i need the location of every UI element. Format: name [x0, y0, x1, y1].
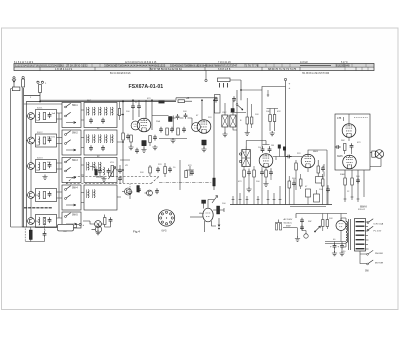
- AF tube V4: [301, 154, 315, 168]
- V3 ground: [246, 187, 251, 192]
- AC ground: [297, 228, 299, 238]
- speaker wires: [370, 153, 376, 155]
- osc long vertical: [236, 90, 238, 205]
- strip drop wire: [205, 71, 207, 80]
- L14: [106, 107, 107, 115]
- svg-text:818283848: 818283848: [336, 64, 350, 68]
- svg-text:MOTOR: MOTOR: [375, 263, 384, 265]
- SW1 arrow: [66, 122, 76, 124]
- svg-text:SW-1: SW-1: [72, 105, 78, 107]
- svg-text:PHONO: PHONO: [375, 253, 383, 255]
- SW4a contact: [65, 186, 71, 191]
- J2 lead: [83, 221, 95, 224]
- coil box 2: [84, 130, 117, 155]
- row1 can box: [36, 110, 57, 123]
- L11: [88, 107, 89, 115]
- strip lower cell dividers: [40, 67, 356, 70]
- svg-text:ANT: ANT: [87, 99, 92, 102]
- det tube V5: [203, 208, 213, 222]
- svg-text:F20-02: F20-02: [358, 209, 366, 211]
- V3 top caps: [261, 147, 265, 153]
- pin circles R1: [37, 81, 39, 83]
- filter cap leads: [335, 242, 343, 253]
- shielded lead (double line): [22, 88, 23, 228]
- interbank verticals: [59, 102, 123, 219]
- wire box to junction: [230, 80, 286, 90]
- osc trim gnd: [245, 131, 250, 136]
- svg-text:5 17 9: 5 17 9: [341, 62, 348, 64]
- output tube V7: [343, 155, 357, 169]
- post box1: [306, 189, 311, 197]
- line resistor a: [322, 220, 324, 227]
- mid cluster wires: [120, 160, 194, 190]
- drop wires from rail: [133, 100, 214, 190]
- svg-text:Fig.4: Fig.4: [133, 230, 140, 234]
- bar comp: [137, 186, 140, 193]
- V4 grid res: [295, 163, 298, 170]
- row2 coil L2: [39, 137, 40, 145]
- row3 resistor: [43, 163, 46, 170]
- base center dot: [166, 217, 167, 218]
- secondary taps: [366, 222, 369, 249]
- interstage res: [344, 144, 347, 151]
- svg-text:1 8 15 4 11 2 9: 1 8 15 4 11 2 9: [55, 67, 73, 71]
- svg-text:56K: 56K: [341, 140, 345, 142]
- V1 cathode ground: [143, 146, 145, 149]
- svg-text:SW-2: SW-2: [72, 133, 78, 135]
- col ticks: [344, 197, 360, 199]
- switch box 2: [62, 130, 81, 155]
- strip tick marks upper: [60, 64, 366, 68]
- T4 hatch: [242, 150, 251, 167]
- SW2b contact: [65, 140, 71, 145]
- L22: [94, 135, 95, 143]
- grid cap a: [176, 114, 180, 120]
- row3 stub wire: [26, 163, 62, 169]
- osc coil can B: [230, 115, 236, 127]
- row1 stub wire: [26, 113, 62, 119]
- V3 extra cap b: [283, 147, 286, 151]
- mid cap2: [168, 167, 172, 173]
- row3 det coil: [104, 167, 105, 175]
- row3 det resistor: [95, 170, 98, 176]
- svg-text:6 8 8 1 8 8: 6 8 8 1 8 8: [218, 67, 231, 71]
- post res3: [322, 179, 325, 186]
- V4 right comps res: [317, 166, 320, 173]
- L31: [88, 162, 89, 170]
- svg-text:B1 C4 D2 E8 F3 G6: B1 C4 D2 E8 F3 G6: [110, 73, 131, 75]
- bottom row res r1: [166, 128, 169, 135]
- row3 can box: [36, 160, 57, 173]
- filter cap 1: [333, 243, 337, 249]
- V5 pins down: [205, 221, 217, 232]
- row1 resistor: [43, 113, 46, 120]
- base pins: [165, 211, 167, 213]
- SW4 arrow: [66, 204, 76, 206]
- osc coil A hatch: [222, 115, 228, 127]
- pin circle right: [284, 78, 286, 80]
- osc link wire: [231, 112, 247, 114]
- svg-text:17B: 17B: [337, 117, 342, 120]
- transformer secondary box: [355, 219, 366, 252]
- band switch contact: [236, 104, 238, 106]
- under-box columns: [345, 170, 364, 202]
- row4 can box: [36, 189, 57, 202]
- row2 stub wire: [26, 138, 62, 144]
- V3 ground2: [263, 182, 268, 187]
- grid line: [152, 116, 192, 131]
- bottom row res r2: [177, 128, 180, 135]
- jack elbow: [74, 225, 80, 228]
- bias cap: [43, 231, 47, 237]
- fuse F1: [22, 79, 25, 87]
- row5 coil L5: [39, 217, 40, 225]
- V2 cathode cap: [202, 140, 206, 145]
- box3 core bars: [87, 162, 99, 171]
- post leads: [289, 174, 328, 205]
- svg-text:SW-3: SW-3: [72, 160, 78, 162]
- speaker coupling rect: [372, 151, 376, 157]
- AC cap 2: [300, 225, 304, 231]
- L12: [94, 107, 95, 115]
- svg-text:535455565758596061626364656667: 5354555657585960616263646566676869707172…: [170, 64, 238, 68]
- B dropping resistor Ra: [269, 115, 272, 122]
- svg-text:OSC: OSC: [222, 112, 227, 114]
- svg-text:524 3: 524 3: [37, 158, 43, 160]
- jack pin: [79, 223, 81, 225]
- V5 arrow down: [218, 218, 220, 227]
- SW4b contact: [65, 195, 71, 200]
- L13: [100, 107, 101, 115]
- transistor Q1: [125, 188, 132, 195]
- osc padder cap: [231, 109, 234, 112]
- mech dash-dot link: [159, 182, 212, 184]
- V2 small envelope: [192, 123, 201, 132]
- cap near Q1: [137, 187, 141, 193]
- L24: [106, 135, 107, 143]
- mid res2: [164, 167, 167, 174]
- osc trim resistor b: [251, 117, 253, 124]
- osc ground: [222, 132, 227, 137]
- row1 coil L1: [39, 112, 40, 120]
- V3 top wires: [246, 141, 269, 150]
- V5 wires right: [213, 208, 224, 212]
- V5 grid bars: [206, 213, 211, 217]
- svg-text:12 6 3 18 10 5 21 13 8 24 2 15: 12 6 3 18 10 5 21 13 8 24 2 15: [125, 62, 157, 64]
- svg-text:524 2: 524 2: [37, 132, 43, 134]
- J2 wires: [98, 215, 111, 232]
- osc coil can A: [222, 115, 228, 127]
- SW3 arrow: [66, 177, 76, 179]
- wire to B rail: [185, 100, 193, 102]
- svg-text:27 28 29 30 31 32: 27 28 29 30 31 32: [66, 64, 88, 68]
- volume pot resistor: [111, 166, 114, 177]
- SW1b contact: [65, 112, 71, 117]
- mid cluster cap3: [190, 170, 194, 176]
- grid stopper resistor: [169, 117, 173, 122]
- V5 top cap: [202, 200, 206, 203]
- row2 cap: [48, 137, 52, 143]
- speaker cross: [376, 151, 382, 157]
- switch box 4: [62, 185, 81, 210]
- phone jack: [95, 226, 101, 232]
- tap switch 1: [367, 219, 373, 224]
- box2 core bars: [87, 135, 111, 144]
- elbow pin foot: [267, 94, 269, 96]
- power top wire: [296, 214, 347, 219]
- switch box 1: [62, 103, 81, 128]
- Q2 legs: [145, 191, 152, 196]
- box1 core bars: [87, 107, 111, 116]
- V4 vertical right: [296, 150, 327, 205]
- L23: [100, 135, 101, 143]
- extra cap leads: [279, 149, 284, 157]
- svg-text:+: +: [41, 79, 43, 83]
- T4 top stub: [245, 147, 247, 150]
- svg-text:6AV6: 6AV6: [313, 150, 319, 153]
- row3 det cap: [98, 168, 102, 174]
- col cap: [356, 178, 360, 184]
- svg-text:75 76 77 78: 75 76 77 78: [244, 64, 259, 68]
- svg-text:+: +: [289, 86, 291, 90]
- svg-text:68 69 70 71 72 73 74 75: 68 69 70 71 72 73 74 75: [268, 67, 297, 71]
- osc trim resistor a: [246, 117, 248, 124]
- Q1 ground: [129, 196, 131, 200]
- J2 inner: [96, 223, 100, 226]
- V3 below comps r1: [243, 170, 246, 177]
- svg-text:VR: VR: [125, 165, 128, 167]
- wire antenna to R1: [24, 93, 40, 102]
- V8 bars: [339, 224, 343, 227]
- col res1: [344, 178, 347, 185]
- osc leads: [225, 101, 237, 133]
- cap near Q2: [155, 188, 159, 194]
- mid cluster res3: [185, 171, 188, 178]
- row3 det cap2: [107, 168, 111, 174]
- transistor Q2: [147, 190, 153, 196]
- svg-text:6AV6: 6AV6: [199, 212, 205, 215]
- ant coil box: [218, 78, 231, 82]
- L33: [100, 162, 101, 170]
- osc coil B hatch: [230, 115, 236, 127]
- row5 can box: [36, 215, 57, 228]
- svg-text:1M: 1M: [271, 145, 274, 147]
- bottom cap row c2: [170, 127, 174, 133]
- power switch dot: [314, 231, 316, 233]
- row3 ground: [42, 175, 47, 180]
- row2 resistor: [43, 137, 46, 144]
- power switch arrow: [316, 226, 321, 231]
- ganged switch dashed frame: [66, 177, 159, 184]
- V5 arrow dot: [218, 228, 220, 230]
- svg-text:AC 100V: AC 100V: [284, 218, 293, 221]
- V8 leads: [340, 214, 342, 242]
- mech ground: [127, 190, 132, 195]
- svg-text:+: +: [36, 79, 38, 83]
- row5 out jack J2: [95, 221, 102, 228]
- V5 top wires: [204, 200, 214, 209]
- plug bar: [275, 220, 297, 228]
- transformer primary winding: [346, 222, 348, 232]
- junctions on x123: [122, 114, 124, 116]
- resistor R3: [178, 100, 185, 103]
- interstage wires: [345, 137, 352, 154]
- post box2: [314, 194, 320, 202]
- switch dot: [241, 109, 243, 111]
- svg-text:PL 2.5V: PL 2.5V: [374, 231, 382, 233]
- mid cap: [156, 167, 160, 173]
- V4 coupling wire: [273, 157, 302, 161]
- primary leads: [341, 218, 346, 247]
- filter grounds: [332, 251, 337, 256]
- grid cap b: [184, 113, 188, 119]
- cap drop dashed: [44, 218, 46, 232]
- V3 extra cap a: [278, 145, 281, 149]
- svg-text:30A5: 30A5: [337, 155, 343, 158]
- grid rail wire: [40, 98, 218, 100]
- antenna symbol: [12, 79, 16, 87]
- under tube comps resistor: [130, 135, 133, 142]
- output jack box: [58, 224, 74, 231]
- fuse pin: [22, 76, 24, 78]
- row4 coil L4: [39, 191, 40, 199]
- V1 cathode cap: [142, 141, 146, 146]
- row5 stub wire: [26, 218, 62, 221]
- J2 ground: [95, 230, 100, 235]
- svg-text:111213141516171819202122232425: 111213141516171819202122232425262: [15, 64, 64, 68]
- row4 resistor: [43, 192, 46, 199]
- svg-text:10K: 10K: [266, 111, 270, 113]
- Q1 legs: [122, 189, 130, 194]
- V1 left comps resistor: [122, 133, 125, 140]
- pot arrow det: [212, 196, 218, 204]
- bus wire left: [25, 102, 27, 228]
- svg-text:50-60c/s: 50-60c/s: [284, 222, 293, 224]
- svg-text:47K: 47K: [277, 111, 281, 113]
- secondary winding bars: [356, 221, 365, 222]
- svg-text:2SA: 2SA: [156, 120, 161, 123]
- post comps res: [288, 181, 291, 188]
- junction blob: [159, 101, 165, 104]
- small res mid: [149, 167, 152, 173]
- volume pot arrow: [109, 167, 116, 180]
- svg-text:180 181: 180 181: [47, 137, 56, 139]
- svg-text:SW: SW: [308, 221, 311, 223]
- 2nd IF lead resistor: [213, 178, 216, 186]
- colA link wires: [30, 119, 32, 217]
- row5 cap: [48, 217, 52, 223]
- V3 below cap3: [269, 170, 273, 176]
- AC cap 1: [300, 218, 304, 224]
- row5 diode D5: [28, 218, 35, 225]
- phono contact 2: [367, 263, 369, 265]
- L42: [94, 190, 95, 198]
- bottom cap row c3: [182, 127, 186, 133]
- L32: [94, 162, 95, 170]
- bias wires: [25, 227, 44, 242]
- L21: [88, 135, 89, 143]
- colC to colD stubs: [81, 110, 84, 203]
- bus feet: [233, 186, 280, 205]
- mech drop dashes: [129, 184, 131, 191]
- link resistor RL: [118, 109, 120, 116]
- osc trim leads: [247, 98, 252, 132]
- col res2: [351, 178, 354, 185]
- SW3a contact: [65, 158, 71, 163]
- junction: [240, 89, 242, 91]
- switch box 5: [62, 212, 81, 228]
- V3 below cap2: [260, 170, 264, 176]
- row3 det ground: [101, 177, 106, 182]
- L41: [88, 190, 89, 198]
- svg-text:6V-5: 6V-5: [162, 230, 168, 233]
- row1 cap: [48, 112, 52, 118]
- driver tube V6: [342, 124, 356, 138]
- feet tick a: [232, 199, 282, 201]
- converter tube V1: [137, 118, 151, 132]
- row3 coil L3: [39, 162, 40, 170]
- left ground bus: [11, 89, 23, 228]
- post comps cap: [292, 181, 296, 187]
- phone jack stub: [92, 224, 99, 229]
- strip divider line: [14, 66, 374, 68]
- V4 plate wire: [308, 150, 327, 154]
- under tube grounds: [131, 142, 150, 146]
- line resistor b: [326, 220, 328, 227]
- interstage cap a: [335, 145, 341, 149]
- row5 label bar: [24, 207, 53, 209]
- filter choke double line: [325, 242, 346, 244]
- L15: [112, 107, 113, 115]
- V1 left cap: [126, 134, 130, 140]
- L25: [112, 135, 113, 143]
- osc section cap B: [232, 96, 236, 102]
- V4 right cap: [321, 166, 325, 172]
- under tube resistor2: [149, 136, 152, 143]
- svg-text:H2 J5 K8 L1 M4 N7 P3 R6: H2 J5 K8 L1 M4 N7 P3 R6: [302, 73, 330, 75]
- V2 ground: [203, 145, 205, 148]
- V1 small envelope: [131, 121, 140, 130]
- dropping ground: [270, 131, 275, 136]
- V4 right box: [316, 177, 324, 184]
- row4 diode D4: [28, 192, 35, 199]
- ant coil caps: [220, 83, 228, 88]
- V3 below cap1: [247, 170, 251, 176]
- strip lower row tone: [15, 67, 374, 70]
- osc section cap A: [214, 97, 218, 103]
- SW2 arrow: [66, 149, 76, 151]
- SW1a contact: [65, 103, 71, 108]
- row1 diode D1: [28, 113, 35, 120]
- pin circle: [13, 77, 15, 79]
- svg-text:14 8 22: 14 8 22: [300, 62, 308, 64]
- interstage cap b: [350, 143, 354, 149]
- line res leads: [323, 214, 328, 232]
- AC plug: [276, 224, 278, 231]
- row2 can box: [36, 134, 57, 147]
- IF can T4: [242, 150, 251, 167]
- cap C11: [131, 104, 135, 110]
- row4 cap: [48, 191, 52, 197]
- bus double line: [290, 206, 326, 208]
- long B+ vertical: [285, 87, 287, 205]
- T4 side pins: [239, 153, 241, 155]
- drop to phono contacts: [360, 251, 367, 264]
- dashed drop: [24, 229, 26, 242]
- bottom tie wire: [159, 138, 187, 140]
- B dropping resistor Rb: [273, 115, 276, 122]
- bottom bus wire: [22, 226, 65, 228]
